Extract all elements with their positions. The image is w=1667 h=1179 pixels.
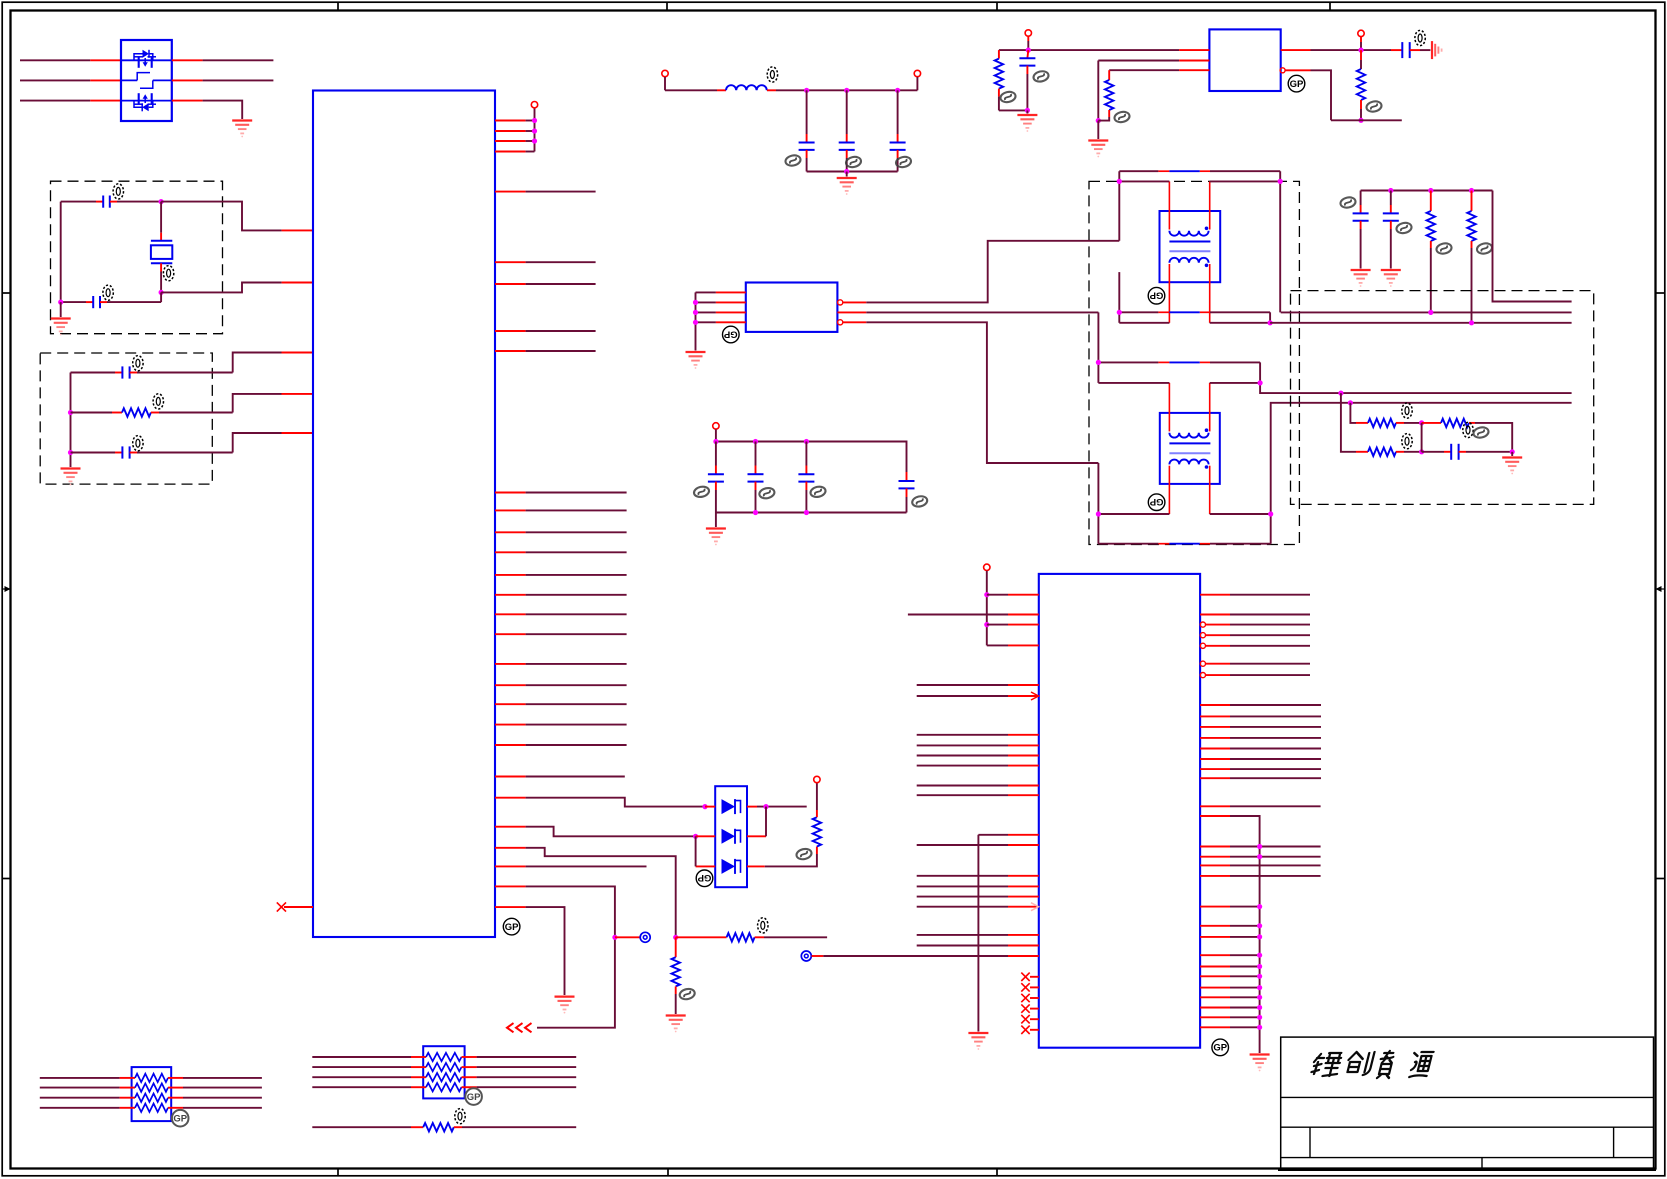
wire L1 output rail [767, 89, 917, 91]
diode D2 [696, 829, 766, 844]
node term row4 junction [1348, 400, 1353, 405]
label U1 GP [503, 918, 520, 935]
node crystal ground junction [58, 300, 63, 305]
node T1 bottom right junction [1268, 320, 1273, 325]
off-page arrows [507, 1023, 532, 1032]
ground R5 [666, 1016, 686, 1033]
capacitor C bank2 x755.5 [748, 442, 764, 513]
svg-text:GP: GP [1149, 496, 1163, 507]
wire D1 output [757, 806, 807, 808]
capacitor C9 [1422, 444, 1513, 460]
mosfet Q1B lower with body diode [134, 80, 156, 111]
node crystal top junction [159, 199, 164, 204]
wire right bank right leg [1493, 191, 1572, 302]
node rail junction C7 [1388, 188, 1393, 193]
border zone tick bottom 1 [337, 1169, 339, 1176]
main IC U1 body [313, 91, 495, 938]
wire U1 pin C5 stub [495, 865, 647, 867]
border zone tick top 4 [1329, 2, 1331, 10]
svg-text:GP: GP [505, 922, 519, 933]
node T1 right junction [1278, 179, 1283, 184]
wire U2 pin L2 [908, 614, 1039, 616]
border zone tick bottom 3 [996, 1169, 998, 1176]
wire U1 pin B574.9 [495, 574, 627, 576]
wire U1 pin B492.5 [495, 492, 627, 494]
wire R1 to U1 [233, 394, 313, 413]
ground C8 [1381, 270, 1401, 287]
node rail junction R11 [1469, 188, 1474, 193]
border zone tick right 2 [1656, 878, 1665, 880]
wire U2 pin L4 [987, 644, 1039, 646]
node bus junction 2 [532, 128, 537, 133]
svg-text:GP: GP [173, 1113, 187, 1124]
label R11 value [1476, 242, 1493, 255]
port connector right [801, 951, 823, 961]
resistor pack RN1 element 1 [40, 1074, 262, 1082]
node T2 bottom right junction [1268, 511, 1273, 516]
main IC U2 body [1039, 574, 1200, 1048]
resistor R9 feedback [1357, 50, 1365, 120]
wire T2 top connect row [1098, 382, 1260, 384]
label R6 value [758, 918, 768, 933]
wire Q1 row2 left [20, 79, 121, 81]
RC network dashed enclosure [40, 353, 212, 484]
ground U2 left [968, 1033, 988, 1050]
resistor pack RN1 element 2 [40, 1083, 262, 1091]
wire U2 pin Rs987.6 [1200, 985, 1262, 990]
label C9 value [1463, 422, 1490, 439]
capacitor C6 output [1402, 42, 1430, 58]
transformer T1 symbol [1160, 181, 1221, 322]
capacitor C8 [1383, 191, 1399, 269]
wire U2 pin L875.8 [917, 875, 1039, 877]
wire T1 bottom right vertical [1269, 312, 1271, 323]
crystal circuit dashed enclosure [51, 181, 223, 334]
wire U2 pin Rs1017.3 [1200, 1015, 1262, 1020]
wire U1 pin C6 to off-page [495, 886, 615, 1027]
ground termination [1502, 452, 1522, 475]
node R12-R13 junction [1419, 420, 1424, 425]
wire U2 pin L9 [917, 934, 1039, 936]
wire U2 pin L785.5 [917, 785, 1039, 787]
wire U1 top bus pin 2 [495, 130, 535, 132]
wire U2 pin L-gnd [978, 835, 1038, 1032]
wire U2 pin L10 [917, 945, 1039, 947]
wire U1 pin B663.9 [495, 663, 627, 665]
resistor pack RN2 element 2 [312, 1063, 576, 1071]
wire Q1 row3 left [20, 100, 121, 102]
node R5 top junction [673, 935, 678, 940]
node bottom rail junction [844, 169, 849, 174]
resistor pack RN1 element 4 [40, 1104, 262, 1112]
wire T2 right vertical [1260, 362, 1572, 393]
input terminal right [914, 70, 920, 90]
U2 no-connect pin 1 [1021, 973, 1039, 981]
label R1 value [153, 394, 163, 409]
resistor pack RN2 body [423, 1046, 464, 1098]
label R7 value [1000, 91, 1017, 104]
node U3 left junction y302.4 [693, 300, 698, 305]
wire U2 pin R769.1 [1200, 768, 1321, 770]
U2 no-connect pin 5 [1021, 1015, 1039, 1023]
label C bank2 values [693, 485, 928, 508]
border zone tick top 3 [996, 2, 998, 10]
wire top cap bank bottom rail [807, 171, 898, 173]
label T1 GP [1148, 287, 1165, 304]
wire T1 top connect row [1119, 180, 1280, 182]
ground U1 pin C7 [555, 997, 575, 1014]
inductor L1 [726, 85, 767, 90]
wire U2 pin R705 [1200, 704, 1321, 706]
wire U2 pin L8 [917, 903, 1039, 911]
label R8 value [1114, 111, 1131, 124]
wire U2 pin R726.9 [1200, 726, 1321, 728]
node term row3 junction [1338, 391, 1343, 396]
wire C4 to U1 [233, 433, 313, 453]
wire U2 pin R10 [1200, 844, 1321, 849]
wire T2 bottom left vertical [1097, 463, 1099, 544]
wire Q1 row3 right to ground [172, 101, 242, 119]
power terminal VOUT [1358, 30, 1364, 50]
wire T1 left vertical [1118, 171, 1120, 241]
node cap rail junction 1 [753, 439, 758, 444]
driver U3 body [746, 283, 838, 332]
wire U2 pin R737.9 [1200, 737, 1321, 739]
label U2 GP [1212, 1039, 1229, 1056]
resistor R10 [1427, 191, 1435, 313]
power terminal VIN [1025, 30, 1031, 50]
wire U2 pin R12 [1200, 864, 1321, 866]
node diode D2 input junction [693, 834, 698, 839]
svg-text:GP: GP [697, 872, 711, 883]
label L1 value [767, 67, 777, 82]
resistor pack RN2 element 3 [312, 1073, 576, 1081]
label U4 GP [1288, 75, 1305, 92]
input terminal left [662, 70, 668, 90]
wire Q1 row2 right [172, 79, 274, 81]
label R12 value [1402, 403, 1412, 418]
wire L1 input [665, 89, 726, 91]
capacitor C7 [1353, 191, 1369, 269]
wire crystal stem top [160, 202, 162, 241]
U2 no-connect pin 3 [1021, 994, 1039, 1002]
label diode pack GP [696, 870, 713, 887]
transformer T2 symbol [1160, 383, 1220, 514]
wire U2 pin L745.4 [917, 744, 1039, 746]
ground C7 [1351, 270, 1371, 287]
node C9 ground junction [1510, 449, 1515, 454]
wire cap bank ground stem [715, 513, 717, 528]
wire U2 pin L765.6 [917, 765, 1039, 767]
capacitor C bank2 x715.9 [708, 442, 724, 513]
wire to ground [60, 302, 62, 317]
wire U2 pin Rs997.3 [1200, 995, 1262, 1000]
label Y1 value [163, 266, 173, 281]
wire term row 2 [1270, 322, 1572, 324]
wire U4 SS [1109, 69, 1209, 71]
U3 output bubble 3 [838, 320, 843, 325]
wire U2 pin R5 [1200, 643, 1310, 648]
resistor R8 SS [1098, 70, 1113, 120]
wire U1 pin C2 to diode D1 [495, 798, 705, 807]
wire U1 pin B552.3 [495, 551, 627, 553]
diode pack D1-D3 body box [715, 786, 747, 887]
wire U2 pin R3 [1200, 622, 1310, 627]
label C2 value [103, 285, 113, 300]
label R15 value [455, 1109, 465, 1124]
wire U2 pin Rs966.5 [1200, 964, 1262, 969]
node cap bank bottom junction 1 [753, 510, 758, 515]
resistor pack RN2 element 1 [312, 1053, 576, 1061]
wire T2 top pin row [1098, 361, 1260, 363]
label T2 GP [1148, 494, 1165, 511]
wire U2 pin L1 [987, 594, 1039, 596]
wire Q1 row1 left [20, 59, 121, 61]
node R14-C9 junction [1419, 449, 1424, 454]
svg-text:GP: GP [467, 1092, 481, 1103]
wire ground stem [846, 172, 848, 177]
node L1 rail junction 1 [804, 88, 809, 93]
wire U3 left pin y322.3 [696, 321, 746, 323]
wire U1 pin A5 [495, 350, 596, 352]
wire U1 pin B614.3 [495, 613, 627, 615]
label C5 value [1033, 70, 1050, 83]
resistor pack RN1 element 3 [40, 1094, 262, 1102]
node bus junction 1 [532, 118, 537, 123]
wire U3 out1 to T1 [843, 241, 1119, 303]
title block frame [1278, 1037, 1656, 1170]
crystal Y1 [151, 241, 172, 264]
resistor R13 [1422, 419, 1513, 452]
diode D1 [705, 799, 757, 814]
wire D2-D3 input link [695, 836, 697, 866]
wire U4 VIN [999, 49, 1210, 51]
node T1 left junction [1117, 179, 1122, 184]
wire C3 to U1 [233, 353, 313, 373]
ground U2 right bus [1250, 1055, 1270, 1072]
wire D3 output to R4 [765, 854, 817, 866]
ground top cap bank [837, 178, 857, 195]
svg-text:GP: GP [1290, 79, 1304, 90]
wire T1 bottom connect row [1119, 322, 1270, 324]
node RC junction 1 [68, 410, 73, 415]
termination dashed enclosure [1291, 291, 1594, 505]
wire U2 pin L896.6 [917, 896, 1039, 898]
node cap bank bottom junction 2 [804, 510, 809, 515]
resistor pack RN2 element 4 [312, 1083, 576, 1091]
capacitor C bank2 x806.4 [798, 442, 814, 513]
capacitor C bank2 fourth [899, 472, 915, 513]
mosfet Q1 internal rails [121, 60, 172, 100]
wire U1 pin A4 [495, 330, 596, 332]
label U3 GP [723, 326, 740, 343]
wire crystal top to U1 [161, 202, 313, 231]
U2 no-connect pin 4 [1021, 1004, 1039, 1012]
label C3 value [133, 356, 143, 371]
border zone tick left 1 [2, 292, 10, 294]
wire U1 pin B745 [495, 744, 627, 746]
node bus junction 3 [532, 138, 537, 143]
wire crystal stem bottom [160, 263, 162, 292]
wire U2 pin R11 [1200, 854, 1321, 859]
label RN1 GP [172, 1110, 189, 1127]
wire U3 out2 to T2 [837, 311, 1098, 313]
node T1 bottom left junction [1117, 310, 1122, 315]
wire crystal left vertical [60, 202, 62, 303]
node L1 rail junction 2 [844, 88, 849, 93]
power terminal R4 [814, 776, 820, 782]
label R14 value [1402, 434, 1412, 449]
wire U3 pin1 left [696, 291, 746, 293]
capacitor C3 [71, 366, 233, 378]
U2 no-connect pin 2 [1021, 983, 1039, 991]
wire U2 pin Rs955.2 [1200, 953, 1262, 958]
border center arrow left [2, 586, 10, 592]
wire U1 top bus pin 1 [495, 120, 535, 122]
wire cap bank top rail [716, 442, 907, 473]
ground U3 [686, 352, 706, 369]
wire U2 pin L11 [823, 955, 1039, 957]
wire U1 pin C4 to R5 [495, 848, 676, 938]
ground U4 input [1017, 110, 1037, 132]
node rail junction R10 [1428, 188, 1433, 193]
node crystal bottom junction [159, 290, 164, 295]
wire T1 right vertical [1279, 171, 1281, 312]
border center arrow right [1656, 586, 1665, 592]
wire port stub [615, 936, 640, 938]
ground U4 EN [1088, 121, 1108, 158]
node T2 right junction [1258, 380, 1263, 385]
resistor R4 pullup [813, 783, 821, 854]
svg-text:GP: GP [1149, 290, 1163, 301]
wire Q1 row1 right [172, 59, 274, 61]
capacitor C1 [61, 196, 161, 208]
wire U1 pin C3 to diode D2 [495, 827, 696, 837]
node C5 ground junction [1025, 108, 1030, 113]
node FB junction [1358, 118, 1363, 123]
label R10 value [1436, 242, 1453, 255]
resistor R15 [312, 1123, 576, 1131]
capacitor C5 input [1019, 50, 1035, 110]
transformer dashed enclosure [1089, 181, 1299, 544]
border zone tick top 2 [666, 2, 668, 10]
label C8 value [1396, 222, 1413, 235]
wire U1 pin A3 [495, 283, 596, 285]
border zone tick bottom 2 [667, 1169, 669, 1176]
svg-text:GP: GP [1213, 1043, 1227, 1054]
node L1 rail junction 3 [895, 88, 900, 93]
regulator U4 body [1209, 29, 1280, 91]
wire RC left vertical [70, 373, 72, 468]
wire U2 pin Rs925.8 [1200, 923, 1262, 928]
wire U1 top bus pin 4 [495, 151, 535, 153]
resistor R12 [1356, 419, 1422, 427]
svg-text:GP: GP [723, 328, 737, 339]
border zone tick right 1 [1656, 292, 1665, 294]
wire U1 pin B532.3 [495, 531, 627, 533]
wire T1 top pin row [1119, 170, 1280, 172]
node cap rail junction 0 [713, 439, 718, 444]
node T2 left junction [1096, 360, 1101, 365]
port connector mid [640, 932, 650, 942]
title text Wistron calligraphy [1310, 1051, 1434, 1078]
label C7 value [1340, 196, 1357, 209]
node U2 feed junction 1 [984, 592, 989, 597]
label RN2 GP [465, 1088, 482, 1105]
resistor R11 [1467, 191, 1475, 323]
wire U1 pin B634.2 [495, 633, 627, 635]
U4 FB pin bubble [1280, 68, 1285, 73]
wire U2 pin R1 [1200, 594, 1310, 596]
wire U2 pin L7 [917, 844, 1039, 846]
wire R12-R14 link [1421, 423, 1423, 452]
node term R10 junction [1428, 310, 1433, 315]
node RC junction 2 [68, 450, 73, 455]
wire U2 pin R2 [1200, 614, 1310, 616]
capacitor C4 [71, 446, 233, 458]
wire U1 top bus pin 3 [495, 140, 535, 142]
wire T2 bottom right vertical [1271, 403, 1572, 544]
node VOUT junction [1358, 48, 1363, 53]
border zone tick left 2 [2, 878, 10, 880]
wire U2 pin R6 [1200, 661, 1310, 666]
wire U2 pin R716.4 [1200, 715, 1321, 717]
wire U2 pin R9 bus feed [1200, 816, 1260, 1053]
label C bank values [785, 154, 912, 168]
wire U2 pin L795.2 [917, 794, 1039, 796]
label C4 value [133, 436, 143, 451]
wire U3 left pin y302.4 [696, 301, 746, 303]
wire U4 VOUT [1281, 49, 1403, 51]
wire U1 pin B724.6 [495, 724, 627, 726]
wire U1 pin B685.2 [495, 684, 627, 686]
ground C6 sideways [1432, 41, 1442, 59]
wire U2 pin R13 [1200, 875, 1321, 877]
U3 output bubble 1 [838, 300, 843, 305]
label C1 value [113, 184, 123, 199]
wire U3 left bus [695, 292, 697, 350]
capacitor C top bank x897.6 [890, 90, 906, 171]
node T2 bottom left junction [1096, 511, 1101, 516]
wire U2 pin R7 [1200, 673, 1310, 678]
node diode D1 input junction [702, 804, 707, 809]
capacitor C top bank x846.7 [839, 90, 855, 171]
wire U2 pin R8 [1200, 805, 1321, 807]
ground Q1 [232, 121, 252, 138]
wire crystal bottom to U1 [161, 283, 313, 293]
diode D3 [696, 859, 765, 874]
node cap rail junction 2 [804, 439, 809, 444]
resistor R5 vertical [672, 937, 680, 1014]
label R5 value [679, 988, 696, 1001]
wire U2 pin L755.5 [917, 755, 1039, 757]
wire D1-D2 output link [765, 807, 767, 837]
wire U2 pin R4 [1200, 633, 1310, 638]
node term R11 junction [1469, 320, 1474, 325]
node U3 left junction y322.3 [693, 320, 698, 325]
node mid junction port [612, 935, 617, 940]
wire U2 pin Rs1007.5 [1200, 1005, 1262, 1010]
label R9 value [1366, 100, 1383, 113]
wire U1 pin A2 [495, 261, 596, 263]
wire FB divider [1285, 70, 1402, 120]
capacitor C top bank x806.6 [799, 90, 815, 171]
label R4 value [796, 848, 813, 861]
resistor R1 [71, 408, 233, 416]
ground RC box [61, 469, 81, 486]
wire U2 pin Rs906.6 [1200, 904, 1262, 909]
wire U2 pin R778.2 [1200, 777, 1321, 779]
